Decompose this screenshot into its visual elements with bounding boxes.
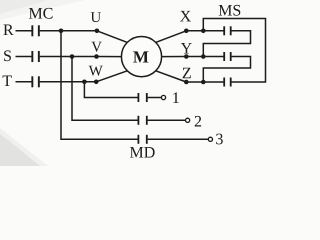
junction X bus dot: [201, 29, 206, 34]
junction Z bus dot: [201, 80, 206, 85]
terminal 2 circle: [186, 118, 190, 122]
wire MC to V node: [40, 56, 97, 58]
wire MS Z output outer loop to X bus: [203, 19, 265, 83]
terminal 1 circle: [161, 95, 165, 99]
wire X bus to MS contact: [203, 30, 224, 32]
contactor MS contact Z: [223, 78, 225, 87]
contactor MC contact R phase: [31, 25, 33, 36]
wire W to motor: [96, 71, 127, 82]
paper background: [0, 0, 277, 166]
junction S bus dot: [70, 54, 75, 59]
wire MD to terminal 2: [148, 119, 186, 121]
node X label: [180, 11, 191, 22]
node W label: [89, 66, 103, 76]
contactor MS contact X: [223, 26, 225, 35]
node Z label: [183, 68, 191, 79]
junction Y bus dot: [201, 54, 206, 59]
junction T bus dot: [82, 80, 87, 85]
wire Y bus to MS contact: [203, 56, 224, 58]
wire MD to terminal 1: [148, 97, 162, 99]
node U dot: [95, 29, 100, 34]
node W dot: [94, 80, 99, 85]
wire R bus drop to branch 3: [61, 31, 138, 140]
node T label: [3, 76, 12, 87]
contactor MS contact Y: [223, 52, 225, 61]
scan shading top-left edge: [0, 0, 85, 20]
wire MD to terminal 3: [148, 138, 209, 140]
node U label: [91, 12, 101, 22]
wire Y to bus: [186, 56, 203, 58]
wire MS X output loop to Y bus: [203, 31, 250, 57]
wire Z to bus: [186, 81, 203, 83]
wire MC to W node: [40, 81, 96, 83]
junction R bus dot: [59, 29, 64, 34]
motor M letter: [133, 51, 148, 62]
node Y label: [181, 43, 192, 54]
node V dot: [94, 54, 99, 59]
wire motor to Z: [156, 71, 187, 82]
wire motor to X: [156, 31, 187, 43]
wire X to bus: [186, 30, 203, 32]
wire R lead-in: [16, 30, 32, 32]
wire V to motor: [97, 56, 122, 58]
contactor MC contact S phase: [31, 51, 33, 62]
node Y dot: [184, 54, 189, 59]
label MD: [130, 147, 155, 158]
label MC: [29, 8, 53, 19]
wire T lead-in: [16, 81, 32, 83]
wire Z bus to MS contact: [203, 81, 224, 83]
node Z dot: [184, 80, 189, 85]
contactor MD contact branch 2: [138, 116, 140, 125]
terminal 2 label: [195, 116, 201, 127]
scan shading bottom-left corner: [0, 128, 48, 166]
node X dot: [184, 29, 189, 34]
terminal 3 label: [216, 134, 223, 145]
wire MC to U node: [40, 30, 97, 32]
wire S bus drop to branch 2: [72, 57, 138, 121]
wire motor to Y: [162, 56, 187, 58]
wire S lead-in: [16, 56, 32, 58]
wire U to motor: [97, 31, 127, 43]
node V label: [91, 42, 101, 52]
terminal 1 label: [173, 92, 179, 103]
contactor MC contact T phase: [31, 76, 33, 87]
wire T bus drop to branch 1: [84, 82, 138, 98]
motor M circle: [121, 37, 161, 77]
node R label: [3, 25, 13, 36]
node S label: [4, 50, 11, 61]
contactor MD contact branch 3: [138, 135, 140, 144]
contactor MD contact branch 1: [138, 93, 140, 102]
label MS: [219, 5, 241, 16]
wire MS Y output loop to Z bus: [203, 57, 250, 83]
terminal 3 circle: [208, 137, 212, 141]
